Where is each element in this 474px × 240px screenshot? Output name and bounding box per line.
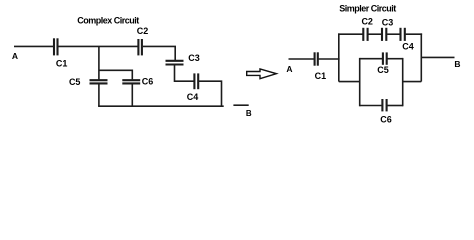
svg-text:C6: C6 xyxy=(142,77,154,87)
svg-text:Complex Circuit: Complex Circuit xyxy=(77,16,139,26)
svg-text:C5: C5 xyxy=(69,77,81,87)
wire C4 to right node xyxy=(406,33,423,35)
wire junction down to C5 xyxy=(98,46,100,79)
wire top branch left xyxy=(338,33,363,35)
svg-text:C1: C1 xyxy=(56,59,68,69)
svg-text:C2: C2 xyxy=(361,16,373,26)
svg-text:B: B xyxy=(246,109,252,118)
wire C2 to corner xyxy=(143,46,175,60)
wire A to C1 (right) xyxy=(289,58,314,60)
svg-text:C1: C1 xyxy=(315,71,327,81)
wire C6 to bottom rail xyxy=(131,84,133,106)
wire right node to B xyxy=(421,56,454,58)
wire bottom rail xyxy=(98,105,224,107)
arrow between circuits xyxy=(247,69,277,79)
wire left node vertical xyxy=(338,33,340,81)
wire branch to C6 xyxy=(99,70,132,79)
wire inner box left vertical xyxy=(359,58,361,106)
wire inner box right vertical xyxy=(402,58,404,106)
svg-text:C4: C4 xyxy=(402,42,414,52)
svg-text:C3: C3 xyxy=(382,18,394,28)
wire C1 to C2 xyxy=(58,45,137,47)
svg-text:Simpler Circuit: Simpler Circuit xyxy=(339,4,396,14)
capacitor C2 xyxy=(138,39,142,55)
svg-text:C2: C2 xyxy=(137,26,149,36)
wire C1 to left node xyxy=(319,58,340,60)
capacitor C3 xyxy=(166,61,184,65)
svg-text:C6: C6 xyxy=(380,115,392,125)
svg-text:C4: C4 xyxy=(187,92,199,102)
wire inner top branch right xyxy=(388,58,403,60)
svg-text:A: A xyxy=(12,51,18,61)
wire stub right from inner box xyxy=(403,81,422,83)
capacitor C4 xyxy=(194,73,198,89)
wire inner bottom branch right xyxy=(387,105,402,107)
wire A to C1 xyxy=(14,45,53,47)
capacitor C2 (right) xyxy=(363,28,367,41)
wire inner top branch left xyxy=(360,58,382,60)
svg-text:A: A xyxy=(286,64,292,74)
capacitor C1 (right) xyxy=(315,52,318,65)
wire inner bottom branch left xyxy=(360,105,382,107)
wire right node vertical xyxy=(420,33,422,81)
svg-text:C5: C5 xyxy=(377,65,389,75)
wire C3 to C4 xyxy=(387,33,400,35)
wire stub left to inner box xyxy=(339,81,361,83)
capacitor C4 (right) xyxy=(401,28,405,41)
capacitor C3 (right) xyxy=(382,28,386,41)
capacitor C5 (right) xyxy=(383,52,387,64)
svg-text:C3: C3 xyxy=(188,53,200,63)
svg-text:B: B xyxy=(454,59,460,69)
capacitor C1 xyxy=(54,38,58,55)
capacitor C6 (right) xyxy=(382,99,386,111)
wire C4 to bottom rail xyxy=(199,81,222,106)
capacitor C6 xyxy=(122,80,140,83)
wire C3 to C4 xyxy=(175,65,194,81)
capacitor C5 xyxy=(90,80,108,83)
wire C2 to C3 xyxy=(368,33,381,35)
wire B lead (left circuit) xyxy=(233,104,248,106)
wire C5 to bottom rail xyxy=(98,84,100,106)
